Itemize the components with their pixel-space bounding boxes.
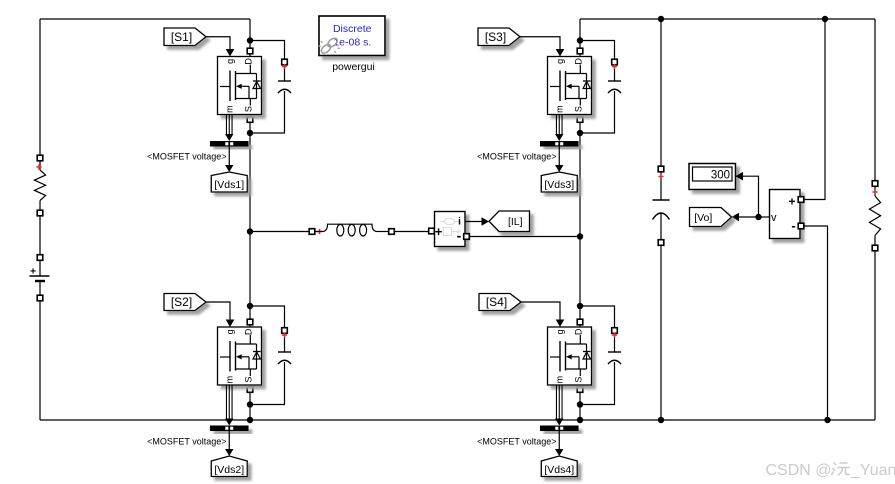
svg-text:_Yuan: _Yuan bbox=[850, 462, 895, 479]
svg-text:[Vds2]: [Vds2] bbox=[214, 464, 244, 476]
wire current meas to right leg bbox=[469, 236, 580, 238]
node drain Q1 bbox=[247, 37, 253, 43]
svg-text:Discrete: Discrete bbox=[333, 23, 372, 35]
svg-text:[S3]: [S3] bbox=[485, 30, 506, 44]
MOSFET block Q3 bbox=[548, 57, 592, 115]
svg-text:S: S bbox=[573, 106, 583, 112]
wire bottom rail bbox=[40, 419, 875, 421]
Goto tag Vds3 bbox=[541, 172, 577, 192]
wire load resistor branch bbox=[874, 19, 876, 196]
wire to Vds goto (Q4) bbox=[558, 431, 560, 450]
node v- rail bbox=[824, 417, 830, 423]
svg-text:S: S bbox=[573, 377, 583, 383]
measurement signal m Q4 bbox=[555, 385, 563, 426]
svg-text:<MOSFET voltage>: <MOSFET voltage> bbox=[477, 437, 556, 447]
svg-text:1e-08 s.: 1e-08 s. bbox=[333, 37, 371, 49]
wire to inductor bbox=[250, 231, 310, 233]
bus selector Q1 Vds bbox=[210, 141, 249, 147]
node rail Q2 bbox=[247, 417, 253, 423]
node source Q2 bbox=[247, 401, 253, 407]
snubber capacitor Q1 bbox=[278, 59, 291, 93]
wire to Vds goto (Q2) bbox=[228, 431, 230, 450]
wire to display bbox=[736, 172, 744, 181]
wire inductor to current measurement bbox=[394, 231, 429, 233]
wire v output bbox=[759, 216, 770, 218]
svg-text:D: D bbox=[243, 328, 253, 335]
port S Q4 bbox=[577, 387, 583, 393]
svg-text:<MOSFET voltage>: <MOSFET voltage> bbox=[147, 152, 226, 162]
node cap top bbox=[658, 16, 664, 22]
wire snubber bottom bbox=[580, 362, 615, 405]
svg-text:+: + bbox=[788, 195, 795, 209]
svg-text:m: m bbox=[225, 105, 235, 113]
svg-text:m: m bbox=[555, 105, 565, 113]
node cap bottom bbox=[658, 417, 664, 423]
svg-text:m: m bbox=[225, 376, 235, 384]
wire v+ to top rail bbox=[804, 19, 826, 200]
snubber capacitor Q3 bbox=[608, 59, 621, 93]
From tag S2 bbox=[164, 294, 206, 311]
measurement signal m Q2 bbox=[225, 385, 233, 426]
svg-text:[Vds1]: [Vds1] bbox=[214, 179, 244, 191]
wire gate S2 bbox=[206, 302, 230, 321]
wire snubber bottom bbox=[250, 362, 285, 405]
wire i signal bbox=[465, 221, 482, 223]
svg-text:[Vo]: [Vo] bbox=[694, 212, 712, 224]
wire to Vds goto (Q1) bbox=[228, 147, 230, 166]
wire gate S3 bbox=[520, 37, 560, 50]
snubber capacitor Q4 bbox=[608, 328, 621, 364]
node drain Q4 bbox=[577, 303, 583, 309]
node bridge midpoint right bbox=[577, 233, 583, 239]
node drain Q2 bbox=[247, 303, 253, 309]
voltage measurement block bbox=[770, 190, 804, 239]
node rail Q4 bbox=[577, 417, 583, 423]
port D Q4 bbox=[577, 319, 583, 325]
svg-text:+: + bbox=[435, 224, 443, 239]
Goto tag IL bbox=[489, 211, 530, 232]
From tag S4 bbox=[479, 294, 521, 311]
svg-text:-: - bbox=[791, 218, 795, 233]
svg-text:g: g bbox=[225, 59, 235, 64]
Goto tag Vo bbox=[690, 208, 732, 227]
inductor L bbox=[309, 224, 394, 236]
From tag S1 bbox=[164, 28, 206, 46]
wire snubber bottom bbox=[250, 91, 285, 133]
svg-text:S: S bbox=[243, 377, 253, 383]
wire snubber top bbox=[250, 41, 285, 82]
svg-text:[S4]: [S4] bbox=[486, 295, 507, 309]
Goto tag Vds4 bbox=[541, 456, 577, 477]
svg-text:powergui: powergui bbox=[332, 61, 375, 73]
wire snubber top bbox=[250, 306, 285, 352]
MOSFET block Q2 bbox=[218, 327, 262, 385]
Goto tag Vds2 bbox=[211, 456, 247, 477]
svg-text:D: D bbox=[573, 328, 583, 335]
port S Q3 bbox=[577, 117, 583, 123]
wire top-right rail bbox=[580, 18, 875, 20]
From tag S3 bbox=[478, 28, 520, 46]
watermark bbox=[766, 462, 895, 479]
port D Q2 bbox=[247, 319, 253, 325]
svg-text:D: D bbox=[243, 58, 253, 65]
svg-text:[Vds3]: [Vds3] bbox=[544, 179, 574, 191]
bus selector Q3 Vds bbox=[540, 141, 579, 147]
measurement signal m Q1 bbox=[225, 115, 233, 142]
resistor Rload bbox=[869, 181, 880, 251]
bus selector Q2 Vds bbox=[210, 426, 249, 432]
svg-text:D: D bbox=[573, 58, 583, 65]
svg-text:S: S bbox=[243, 106, 253, 112]
broken-link icon bbox=[319, 37, 340, 55]
port D Q3 bbox=[577, 48, 583, 54]
port S Q1 bbox=[247, 117, 253, 123]
wire to Vds goto (Q3) bbox=[558, 147, 560, 166]
resistor Rin (series input) bbox=[34, 155, 45, 216]
svg-text:g: g bbox=[555, 329, 565, 334]
snubber capacitor Q2 bbox=[278, 328, 291, 364]
svg-text:v: v bbox=[771, 212, 777, 224]
display block (300) bbox=[689, 164, 736, 190]
bus selector Q4 Vds bbox=[540, 426, 579, 432]
node source Q1 bbox=[247, 130, 253, 136]
node source Q4 bbox=[577, 401, 583, 407]
svg-text:m: m bbox=[555, 376, 565, 384]
MOSFET block Q1 bbox=[218, 57, 262, 115]
svg-text:-: - bbox=[457, 228, 462, 244]
wire left source branch bbox=[39, 19, 41, 170]
svg-text:CSDN @: CSDN @ bbox=[766, 462, 832, 479]
wire right bridge leg bbox=[579, 19, 581, 420]
wire gate S1 bbox=[206, 37, 230, 50]
wire snubber bottom bbox=[580, 91, 615, 133]
wire snubber top bbox=[580, 41, 615, 82]
current measurement block bbox=[429, 212, 470, 247]
node drain Q3 bbox=[577, 37, 583, 43]
svg-text:<MOSFET voltage>: <MOSFET voltage> bbox=[477, 152, 556, 162]
svg-text:[S1]: [S1] bbox=[171, 30, 192, 44]
port D Q1 bbox=[247, 48, 253, 54]
svg-text:[Vds4]: [Vds4] bbox=[544, 464, 574, 476]
svg-text:[IL]: [IL] bbox=[508, 216, 523, 228]
node source Q3 bbox=[577, 130, 583, 136]
wire output capacitor branch bbox=[660, 19, 662, 200]
DC voltage source E bbox=[30, 255, 50, 301]
svg-text:g: g bbox=[225, 329, 235, 334]
svg-text:<MOSFET voltage>: <MOSFET voltage> bbox=[147, 437, 226, 447]
Goto tag Vds1 bbox=[211, 172, 247, 192]
wire gate S4 bbox=[521, 302, 560, 321]
node bridge midpoint left bbox=[247, 228, 253, 234]
wire v- to bottom rail bbox=[804, 226, 828, 420]
capacitor Co bbox=[653, 166, 670, 245]
wire snubber top bbox=[580, 306, 615, 352]
svg-text:i: i bbox=[458, 217, 461, 228]
measurement signal m Q3 bbox=[555, 115, 563, 142]
wire top-left rail bbox=[40, 18, 250, 20]
svg-text:300: 300 bbox=[711, 170, 730, 182]
svg-text:[S2]: [S2] bbox=[171, 295, 192, 309]
powergui block bbox=[319, 16, 385, 56]
port S Q2 bbox=[247, 387, 253, 393]
wire left bridge leg bbox=[249, 19, 251, 420]
MOSFET block Q4 bbox=[548, 327, 592, 385]
wire to Vo goto bbox=[739, 216, 759, 218]
svg-text:g: g bbox=[555, 59, 565, 64]
node display tap bbox=[755, 214, 761, 220]
node v+ rail bbox=[822, 16, 828, 22]
